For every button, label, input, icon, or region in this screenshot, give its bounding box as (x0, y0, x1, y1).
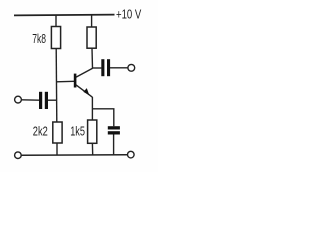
capacitor C2 output coupling, right plate (107, 59, 110, 76)
wire: collector node to C2 (92, 67, 101, 69)
capacitor C2 output coupling, left plate (101, 59, 104, 76)
wire: +10V top supply rail (14, 14, 115, 17)
transistor Q1 base bar (74, 74, 77, 88)
svg-text:2k2: 2k2 (33, 123, 48, 138)
wire: R1 bottom to base node and down to R2 (55, 49, 58, 123)
transistor Q1 emitter arrow (83, 88, 89, 95)
svg-text:1k5: 1k5 (70, 124, 85, 139)
wire: C2 to output terminal (110, 67, 128, 69)
wire: emitter down to R4 (91, 97, 93, 120)
terminal: signal output (right circle) (128, 64, 135, 71)
svg-text:7k8: 7k8 (32, 31, 46, 46)
terminal: input ground (bottom left circle) (15, 152, 22, 159)
resistor R1 7k8 (base bias upper) (51, 27, 60, 49)
wire: R4 bottom to ground rail (91, 143, 93, 155)
capacitor C3 emitter bypass, top plate (108, 126, 120, 129)
wire: input terminal to C1 (22, 99, 40, 101)
wire: R2 bottom to ground rail (56, 143, 58, 155)
capacitor C1 input coupling, right plate (45, 92, 48, 109)
terminal: signal input (left circle) (15, 96, 22, 103)
resistor R4 1k5 emitter (88, 120, 97, 143)
wire: rail to R1 top (55, 15, 57, 26)
resistor R2 2k2 (base bias lower) (53, 122, 62, 143)
transistor Q1 emitter lead (76, 85, 93, 97)
capacitor C1 input coupling, left plate (39, 92, 42, 109)
wire: rail to R3 top (91, 15, 93, 27)
wire: C3 bottom to ground rail (113, 135, 115, 156)
wire: emitter node branch to bypass capacitor C3 (92, 109, 113, 127)
wire: R3 bottom to collector node (91, 48, 94, 68)
wire: base lead to transistor Q1 (56, 80, 74, 83)
transistor Q1 collector lead (76, 68, 93, 77)
terminal: output ground (bottom right circle) (128, 151, 135, 158)
capacitor C3 emitter bypass, bottom plate (108, 131, 120, 134)
resistor R3 collector load (unlabeled) (87, 27, 96, 48)
wire: bottom ground rail (21, 154, 127, 157)
wire: C1 to base node (48, 99, 57, 101)
svg-text:+10 V: +10 V (116, 7, 142, 22)
